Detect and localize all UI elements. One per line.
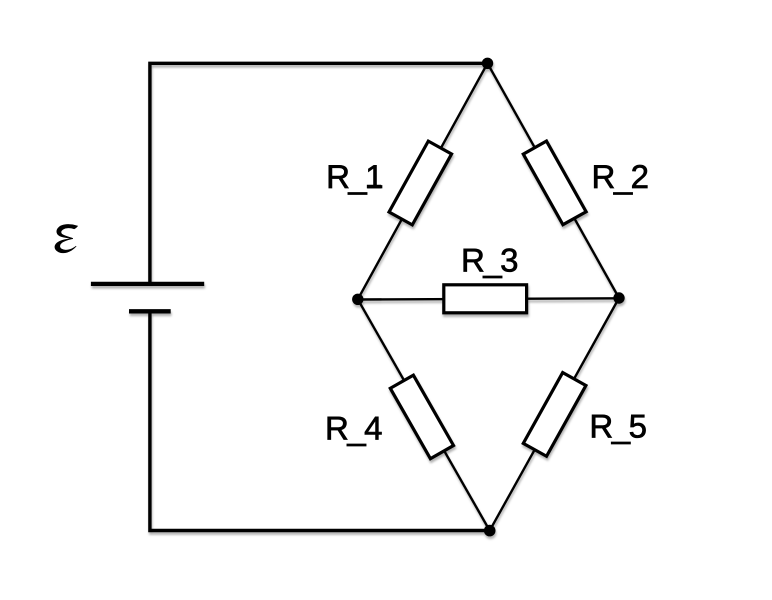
svg-text:R_1: R_1 bbox=[326, 158, 382, 195]
svg-text:R_5: R_5 bbox=[589, 408, 645, 445]
svg-text:R_2: R_2 bbox=[592, 158, 648, 195]
svg-text:R_3: R_3 bbox=[461, 241, 517, 278]
svg-text:R_4: R_4 bbox=[325, 409, 382, 446]
